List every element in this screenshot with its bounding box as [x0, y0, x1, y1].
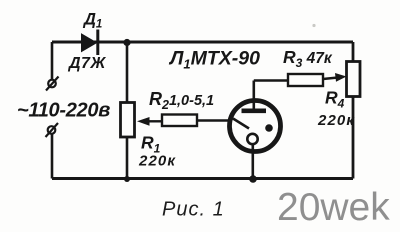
resistor R2 body — [162, 115, 197, 127]
diode D1 (Д1) triangle and cathode bar — [82, 30, 98, 56]
resistor R4 body (potentiometer) — [347, 62, 361, 97]
tube anode lead up through envelope — [253, 81, 256, 111]
terminal upper input (circle with slash) — [46, 77, 59, 91]
svg-text:Л1МТХ-90: Л1МТХ-90 — [168, 48, 260, 72]
tube cathode ring — [247, 134, 257, 144]
wire bottom bus — [52, 177, 353, 180]
wire right vertical from top bus to R4 — [352, 42, 355, 62]
resistor R3 body — [288, 74, 323, 86]
junction node cathode on bottom bus — [249, 175, 257, 183]
svg-text:20wek: 20wek — [277, 186, 390, 229]
scan speck top right — [312, 24, 315, 27]
svg-text:Рис. 1: Рис. 1 — [162, 199, 225, 221]
R1 wiper arrow pointing left into R1 body — [137, 117, 163, 126]
wire from R1 down to bottom bus — [126, 137, 129, 179]
tube gas-filled indicator dot — [265, 124, 273, 132]
tube anode bar — [242, 109, 267, 114]
svg-text:220к: 220к — [317, 112, 355, 129]
wire R3 to R4 wiper arrow pointing right into R4 body — [323, 73, 347, 82]
wire from R4 down to bottom bus — [352, 97, 355, 179]
wire anode to R3 (corner) — [254, 79, 288, 82]
tube starter electrode (diagonal) — [233, 119, 249, 129]
svg-text:220к: 220к — [138, 153, 176, 170]
resistor R1 body (potentiometer) — [121, 103, 135, 138]
wire from top bus down to R1 — [126, 42, 129, 103]
junction node R1 bottom on bottom bus — [124, 176, 130, 182]
svg-text:R21,0-5,1: R21,0-5,1 — [149, 89, 214, 112]
svg-text:~110-220в: ~110-220в — [17, 100, 110, 122]
wire left vertical from top bus to upper terminal — [51, 42, 54, 79]
svg-text:Д7Ж: Д7Ж — [67, 55, 106, 72]
terminal lower input (circle with slash) — [46, 123, 59, 137]
wire left vertical from lower terminal to bottom bus — [51, 135, 54, 179]
tube L1 (МТХ-90) envelope circle — [230, 101, 281, 152]
tube cathode lead down to bottom bus — [252, 144, 255, 179]
wire from R2 to tube starter electrode — [197, 119, 229, 121]
wire top bus from left branch to right branch — [52, 41, 353, 44]
svg-text:R3 47к: R3 47к — [283, 47, 333, 70]
junction node on top bus above R1 — [123, 39, 130, 46]
